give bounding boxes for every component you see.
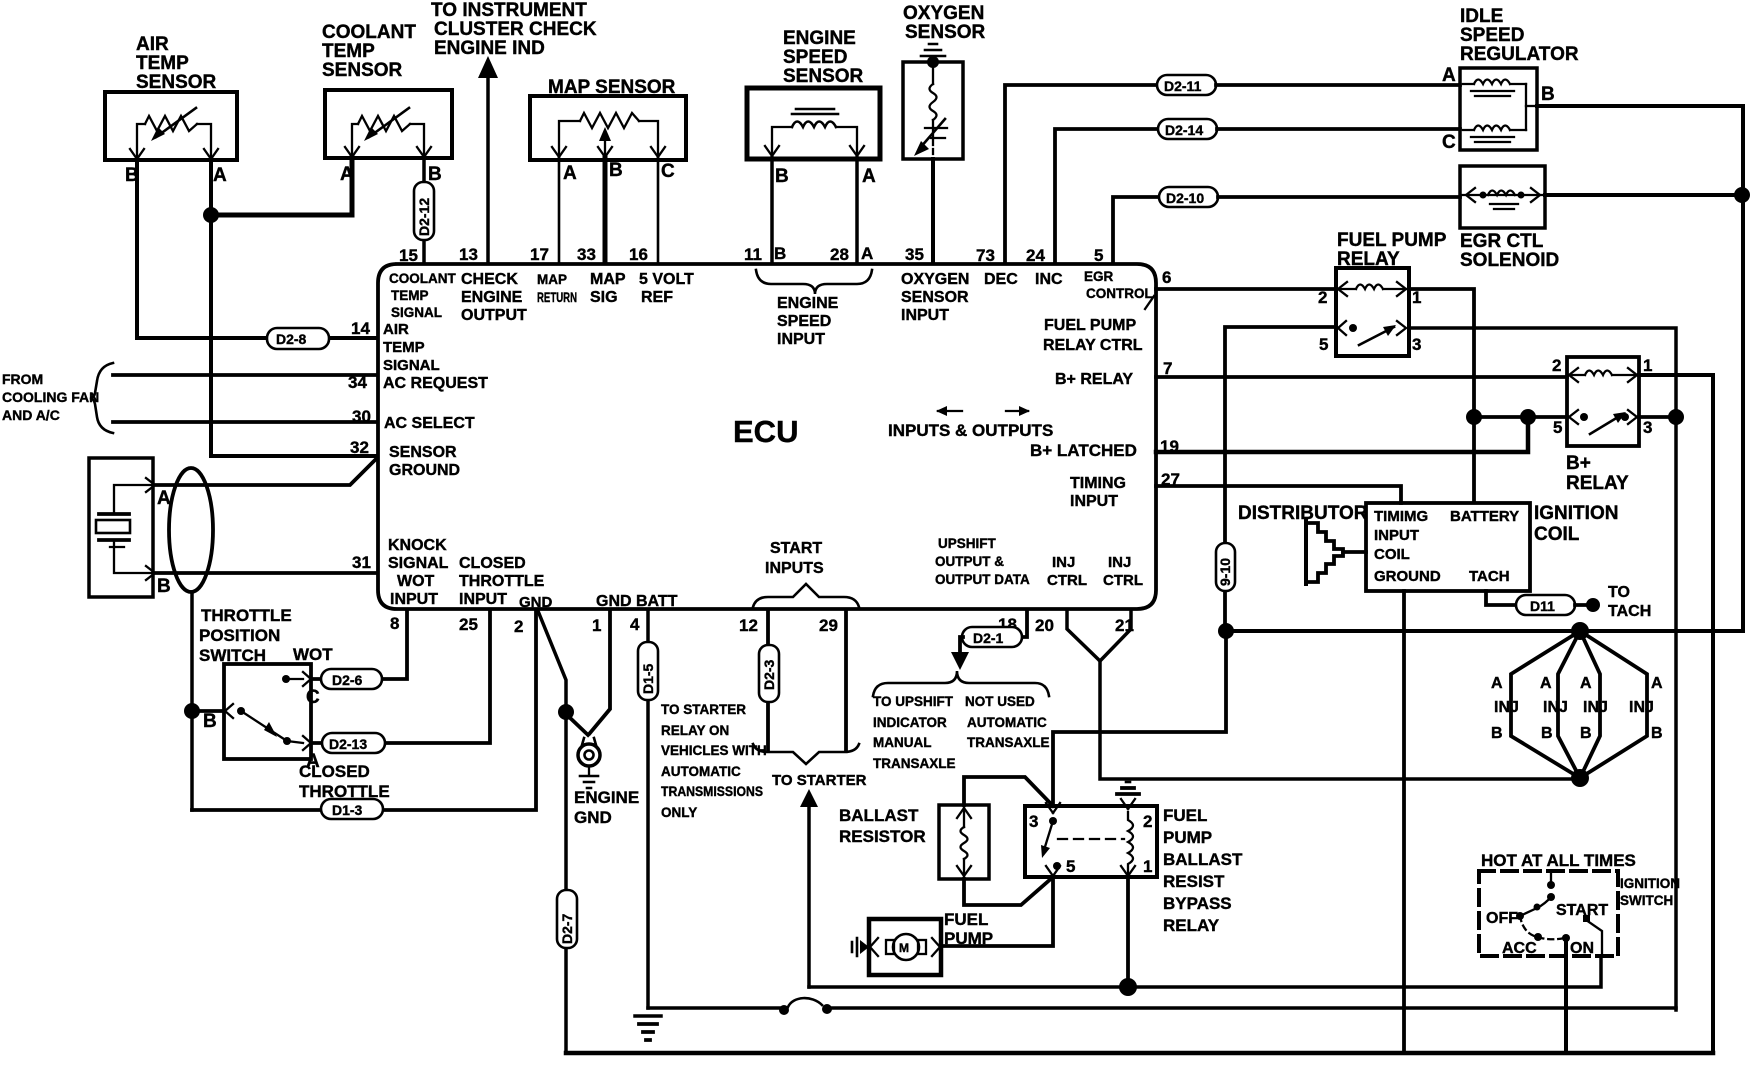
svg-text:EGR: EGR <box>1084 269 1114 284</box>
node: injector B common <box>1571 769 1589 787</box>
svg-text:31: 31 <box>352 553 371 572</box>
svg-text:TEMP: TEMP <box>391 288 429 303</box>
svg-text:CLOSED: CLOSED <box>299 762 370 781</box>
fpr switch <box>1338 321 1346 335</box>
svg-text:ENGINE: ENGINE <box>783 28 856 49</box>
wire: bypass relay pin 1 down to starter bus <box>1126 877 1130 987</box>
wire: pin 19 b+ latched <box>1156 419 1528 452</box>
svg-text:20: 20 <box>1035 616 1054 635</box>
wire: ac request to pin 34 <box>113 373 376 377</box>
svg-text:REF: REF <box>641 289 673 306</box>
connector D2-13 <box>322 733 385 753</box>
svg-text:24: 24 <box>1026 246 1045 265</box>
svg-text:FUEL PUMP: FUEL PUMP <box>1044 317 1136 334</box>
svg-text:9-10: 9-10 <box>1217 558 1233 586</box>
svg-text:REGULATOR: REGULATOR <box>1460 44 1579 65</box>
svg-text:SIGNAL: SIGNAL <box>383 357 440 374</box>
svg-text:5: 5 <box>1094 246 1103 265</box>
svg-text:14: 14 <box>351 319 370 338</box>
svg-text:INPUT: INPUT <box>1070 493 1118 510</box>
engine speed sensor <box>747 28 880 187</box>
svg-text:CLUSTER CHECK: CLUSTER CHECK <box>434 19 597 40</box>
svg-text:M: M <box>899 941 909 955</box>
svg-text:A: A <box>1442 65 1456 86</box>
svg-text:INC: INC <box>1035 271 1063 288</box>
svg-text:GROUND: GROUND <box>1374 568 1441 585</box>
svg-text:GROUND: GROUND <box>389 462 460 479</box>
svg-text:8: 8 <box>390 614 399 633</box>
svg-text:D11: D11 <box>1530 598 1555 614</box>
svg-text:EGR CTL: EGR CTL <box>1460 231 1544 252</box>
idle speed regulator <box>1442 6 1579 153</box>
svg-text:15: 15 <box>399 246 418 265</box>
wire: oxygen sensor output to pin 35 <box>931 159 935 263</box>
svg-text:TO: TO <box>1608 584 1630 601</box>
fpr coil <box>1338 285 1406 290</box>
svg-text:1: 1 <box>592 616 601 635</box>
wire: pin 7 to b+ relay coil 2 <box>1156 375 1567 379</box>
svg-text:OUTPUT DATA: OUTPUT DATA <box>935 572 1030 587</box>
wire: b+ relay pin 1 down right side <box>1639 375 1713 1053</box>
svg-text:C: C <box>661 161 675 182</box>
svg-text:HOT AT ALL TIMES: HOT AT ALL TIMES <box>1481 851 1636 870</box>
thermistor in CTS <box>358 116 410 131</box>
node: egr/b+ junction <box>1734 187 1750 203</box>
svg-text:B+ RELAY: B+ RELAY <box>1055 371 1133 388</box>
svg-text:INPUT: INPUT <box>777 331 825 348</box>
svg-text:FUEL: FUEL <box>1163 806 1207 825</box>
svg-text:SWITCH: SWITCH <box>1620 893 1673 908</box>
b+ relay coil <box>1569 371 1637 376</box>
svg-text:SENSOR: SENSOR <box>389 444 457 461</box>
svg-text:A: A <box>563 163 577 184</box>
wire: closed throttle D1-3 to pin 2 <box>192 610 536 810</box>
svg-text:INJ: INJ <box>1629 699 1654 716</box>
svg-text:D2-1: D2-1 <box>973 630 1004 646</box>
svg-text:CLOSED: CLOSED <box>459 555 526 572</box>
connector D2-7 <box>557 890 577 948</box>
svg-text:INJ: INJ <box>1543 699 1568 716</box>
svg-text:SIGNAL: SIGNAL <box>388 555 449 572</box>
b+ relay switch <box>1569 410 1578 424</box>
map sensor <box>530 77 686 184</box>
wire: knock B to pin 31 <box>155 571 376 575</box>
ATS terminal A <box>204 149 218 159</box>
tps common B <box>225 704 233 718</box>
svg-text:INPUT: INPUT <box>901 307 949 324</box>
wire: pin 29 start input <box>844 610 848 750</box>
wire: map A to pin 17 <box>558 158 561 263</box>
wire: check engine output arrow up <box>478 56 498 78</box>
svg-text:OXYGEN: OXYGEN <box>901 271 969 288</box>
wire: tps A via D2-13 to pin 25 <box>311 610 490 743</box>
wire: CTS B down through D2-12 to pin 15 <box>422 158 426 263</box>
main b+ distribution bus <box>1226 106 1743 631</box>
svg-text:INPUT: INPUT <box>390 591 438 608</box>
svg-text:COOLANT: COOLANT <box>389 271 456 286</box>
svg-text:SPEED: SPEED <box>783 47 847 68</box>
map terminal C <box>651 147 665 157</box>
brace upshift <box>873 671 1049 696</box>
pin 1 arrow <box>1121 866 1135 876</box>
svg-text:GND BATT: GND BATT <box>596 593 678 610</box>
node: fpr pin5 bus junction <box>1218 623 1234 639</box>
svg-text:A: A <box>861 244 873 263</box>
wire: pin 4 batt down to ground and fuse <box>646 610 650 1008</box>
fuel pump ground terminal <box>852 938 857 956</box>
wire: pin 73 to D2-11 <box>1005 85 1157 263</box>
svg-text:A: A <box>213 165 227 186</box>
ATS terminal B <box>130 149 144 159</box>
svg-text:1: 1 <box>1143 857 1152 876</box>
svg-text:NOT USED: NOT USED <box>965 694 1035 709</box>
brace to starter <box>753 744 859 764</box>
svg-text:ENGINE IND: ENGINE IND <box>434 38 545 59</box>
thermistor in ATS <box>145 116 197 131</box>
pin 5 <box>1053 862 1061 870</box>
svg-text:ON: ON <box>1570 940 1594 957</box>
connector D2-6 <box>321 669 382 689</box>
connector D2-10 <box>1159 187 1218 207</box>
svg-text:MANUAL: MANUAL <box>873 735 932 750</box>
svg-text:11: 11 <box>744 245 762 264</box>
svg-text:ENGINE: ENGINE <box>574 788 639 807</box>
wire: tps B to shield wire <box>192 709 224 713</box>
svg-text:CONTROL: CONTROL <box>1086 286 1153 301</box>
svg-text:SENSOR: SENSOR <box>136 72 217 93</box>
svg-text:INDICATOR: INDICATOR <box>873 715 947 730</box>
fuel pump <box>852 910 993 975</box>
svg-text:TEMP: TEMP <box>383 339 425 356</box>
svg-text:B+: B+ <box>1566 453 1591 474</box>
svg-text:ENGINE: ENGINE <box>461 289 523 306</box>
speed terminal A <box>850 146 864 156</box>
svg-text:B: B <box>1541 84 1555 105</box>
svg-text:BALLAST: BALLAST <box>839 806 919 825</box>
svg-text:3: 3 <box>1029 812 1038 831</box>
knock terminal B arrow <box>146 566 155 580</box>
svg-text:D2-3: D2-3 <box>761 659 777 690</box>
svg-text:COOLANT: COOLANT <box>322 22 416 43</box>
svg-text:RETURN: RETURN <box>537 290 577 305</box>
svg-text:TRANSMISSIONS: TRANSMISSIONS <box>661 784 763 799</box>
svg-text:IGNITION: IGNITION <box>1534 503 1618 524</box>
svg-text:UPSHIFT: UPSHIFT <box>938 536 997 551</box>
wire: shield drain down <box>190 592 194 810</box>
svg-text:B: B <box>1580 725 1592 742</box>
shield ellipse <box>169 468 213 592</box>
svg-text:INPUTS & OUTPUTS: INPUTS & OUTPUTS <box>888 421 1053 440</box>
svg-text:2: 2 <box>514 617 523 636</box>
svg-text:AUTOMATIC: AUTOMATIC <box>661 764 741 779</box>
ECU box <box>378 264 1156 609</box>
svg-text:AND A/C: AND A/C <box>2 407 60 423</box>
svg-text:25: 25 <box>459 615 478 634</box>
wire: D2-11 to isr A <box>1216 83 1460 87</box>
wire: b+ relay pin 5 feed <box>1474 415 1567 419</box>
wire: map B to pin 33 <box>603 158 608 263</box>
svg-text:C: C <box>306 687 320 708</box>
coolant temp sensor CTS <box>322 22 452 185</box>
speed terminal B <box>765 146 779 156</box>
piezo element <box>99 512 129 516</box>
wire: b+ relay pin 3 to bus <box>1639 415 1676 419</box>
wire: pin 2 gnd diagonal to engine ground bus <box>538 611 566 1053</box>
svg-text:FROM: FROM <box>2 371 43 387</box>
svg-text:DISTRIBUTOR: DISTRIBUTOR <box>1238 503 1368 524</box>
svg-text:35: 35 <box>905 245 924 264</box>
svg-text:INJ: INJ <box>1108 554 1131 571</box>
svg-text:TIMING: TIMING <box>1070 475 1126 492</box>
wire: pin 6 to fuel pump relay coil <box>1156 287 1336 291</box>
svg-text:D2-13: D2-13 <box>329 736 367 752</box>
ignition coil <box>1366 503 1530 591</box>
svg-text:TACH: TACH <box>1469 568 1510 585</box>
svg-text:WOT: WOT <box>397 573 435 590</box>
node on b+ feed <box>1466 409 1482 425</box>
wire: egr solenoid to right bus <box>1545 193 1742 197</box>
svg-text:TO STARTER: TO STARTER <box>661 702 746 717</box>
svg-text:SENSOR: SENSOR <box>901 289 969 306</box>
svg-text:D2-6: D2-6 <box>332 672 363 688</box>
node: B junction on shield wire <box>184 703 200 719</box>
svg-text:RESIST: RESIST <box>1163 872 1225 891</box>
connector D2-14 <box>1158 119 1217 139</box>
connector D2-11 <box>1157 75 1216 95</box>
connector D2-12 <box>414 182 434 240</box>
knock terminal A arrow <box>146 478 155 492</box>
svg-text:A: A <box>1651 675 1663 692</box>
isr bottom coil <box>1463 126 1526 131</box>
connector 9-10 <box>1216 543 1235 591</box>
wire: pin 27 timing input to coil <box>1156 486 1401 503</box>
dashed link <box>1058 838 1124 840</box>
connector D2-1 <box>962 627 1022 647</box>
svg-text:ACC: ACC <box>1502 940 1537 957</box>
CTS terminal B <box>417 147 431 157</box>
wire: inj ctrl pins 20/21 merge <box>1067 610 1576 779</box>
wire: coil ground down <box>1402 591 1406 1053</box>
svg-text:FUEL PUMP: FUEL PUMP <box>1337 230 1447 251</box>
svg-text:D2-11: D2-11 <box>1164 78 1202 94</box>
svg-text:SENSOR: SENSOR <box>905 22 986 43</box>
wire: pin 24 to D2-14 <box>1055 129 1158 263</box>
svg-text:B: B <box>428 164 442 185</box>
svg-text:C: C <box>1442 132 1456 153</box>
wire: speed A to pin 28 <box>855 158 859 263</box>
svg-text:D2-10: D2-10 <box>1166 190 1204 206</box>
svg-text:D2-7: D2-7 <box>559 913 575 944</box>
svg-text:RELAY CTRL: RELAY CTRL <box>1043 337 1143 354</box>
svg-text:DEC: DEC <box>984 271 1018 288</box>
injector 2 <box>1558 631 1580 778</box>
pickup coil <box>792 122 836 128</box>
svg-text:AIR: AIR <box>136 34 169 55</box>
svg-text:INPUT: INPUT <box>459 591 507 608</box>
svg-text:SPEED: SPEED <box>1460 25 1524 46</box>
svg-text:CTRL: CTRL <box>1103 572 1143 589</box>
wire: ground bus bottom <box>566 1051 1713 1056</box>
wire: pin 12 start input <box>766 610 770 750</box>
battery ground symbol <box>635 1014 661 1018</box>
wire: fpr pin 5 down via 9-10 to injector bus <box>1225 327 1336 631</box>
svg-text:A: A <box>1580 675 1592 692</box>
wire: ATS A down to sensor-ground, junction with CTS A <box>211 158 376 456</box>
svg-text:TEMP: TEMP <box>136 53 189 74</box>
wire: speed B to pin 11 <box>770 158 774 263</box>
svg-text:73: 73 <box>976 246 995 265</box>
fuel pump ballast resist bypass relay <box>1025 782 1157 877</box>
svg-text:COOLING FAN: COOLING FAN <box>2 389 99 405</box>
wire: ballast bottom to bypass relay pin 5 <box>964 877 1053 905</box>
svg-text:SENSOR: SENSOR <box>783 66 864 87</box>
isr top coil <box>1463 80 1526 85</box>
svg-text:INJ: INJ <box>1052 554 1075 571</box>
map terminal A <box>552 147 566 157</box>
svg-text:B: B <box>609 160 623 181</box>
svg-text:D2-8: D2-8 <box>276 331 307 347</box>
wire: fused battery feed bus <box>648 1006 780 1010</box>
svg-text:4: 4 <box>630 615 640 634</box>
injector 1 <box>1511 631 1580 778</box>
svg-text:COIL: COIL <box>1534 524 1580 545</box>
svg-text:SIG: SIG <box>590 289 618 306</box>
svg-text:IGNITION: IGNITION <box>1620 876 1680 891</box>
svg-text:FUEL: FUEL <box>944 910 988 929</box>
engine ground ring terminal <box>582 738 596 745</box>
svg-text:START: START <box>770 540 822 557</box>
b+ relay <box>1552 356 1652 494</box>
svg-text:3: 3 <box>1643 418 1652 437</box>
svg-text:GND: GND <box>574 808 612 827</box>
wire: ATS B down to pin 14 via D2-8 <box>137 158 376 338</box>
pickup coil core <box>792 109 838 114</box>
connector D1-5 <box>638 642 658 700</box>
svg-text:5: 5 <box>1319 335 1328 354</box>
svg-text:B: B <box>1651 725 1663 742</box>
svg-text:TO INSTRUMENT: TO INSTRUMENT <box>431 0 587 21</box>
node: sensor ground junction <box>203 207 219 223</box>
svg-text:TO STARTER: TO STARTER <box>772 772 867 789</box>
wire: pin 5 to D2-10 <box>1113 197 1159 263</box>
wire: ignition on wire <box>1564 938 1568 1053</box>
svg-text:29: 29 <box>819 616 838 635</box>
svg-text:OFF: OFF <box>1486 910 1518 927</box>
svg-text:MAP: MAP <box>590 271 626 288</box>
wire: map C to pin 16 <box>657 158 660 263</box>
svg-text:TACH: TACH <box>1608 603 1651 620</box>
svg-text:CHECK: CHECK <box>461 271 518 288</box>
connector D11 <box>1516 595 1575 615</box>
svg-text:B+ LATCHED: B+ LATCHED <box>1030 441 1137 460</box>
svg-text:2: 2 <box>1143 812 1152 831</box>
svg-text:17: 17 <box>530 245 549 264</box>
svg-text:SOLENOID: SOLENOID <box>1460 250 1559 271</box>
svg-text:D2-14: D2-14 <box>1165 122 1203 138</box>
svg-text:MAP: MAP <box>537 272 567 287</box>
svg-text:KNOCK: KNOCK <box>388 537 447 554</box>
svg-text:3: 3 <box>1412 335 1421 354</box>
svg-text:POSITION: POSITION <box>199 626 280 645</box>
wire: fpr pin 1 to ignition coil battery <box>1409 289 1474 502</box>
pin 3 arrow <box>1046 803 1060 813</box>
wire: CTS A to junction node <box>214 158 352 215</box>
wire: D2-10 to egr solenoid <box>1218 195 1460 199</box>
svg-text:B: B <box>203 711 217 732</box>
svg-text:TRANSAXLE: TRANSAXLE <box>967 735 1050 750</box>
CTS terminal A <box>345 147 359 157</box>
svg-text:5: 5 <box>1066 857 1075 876</box>
wire: bypass relay pin 5 to fuel pump <box>941 877 1053 946</box>
wire: starter bus <box>809 956 1601 987</box>
injector 3 <box>1580 631 1600 778</box>
svg-text:5: 5 <box>1553 418 1562 437</box>
connector D2-8 <box>267 328 329 349</box>
wire: coil tach to D11 <box>1486 591 1516 605</box>
svg-text:RESISTOR: RESISTOR <box>839 827 926 846</box>
svg-text:6: 6 <box>1162 268 1171 287</box>
svg-text:OUTPUT &: OUTPUT & <box>935 554 1004 569</box>
svg-text:INPUT: INPUT <box>1374 527 1419 544</box>
svg-text:BATTERY: BATTERY <box>1450 508 1519 525</box>
svg-text:PUMP: PUMP <box>944 929 993 948</box>
svg-text:BALLAST: BALLAST <box>1163 850 1243 869</box>
injectors <box>1491 622 1663 787</box>
air temp sensor ATS <box>105 34 237 186</box>
throttle position switch <box>199 606 333 772</box>
svg-text:TEMP: TEMP <box>322 41 375 62</box>
wire: tps C via D2-6 to pin 8 <box>311 610 407 679</box>
svg-text:B: B <box>157 576 171 597</box>
wire: pin 1 gnd to ring terminal <box>590 610 610 733</box>
svg-text:SIGNAL: SIGNAL <box>391 305 442 320</box>
svg-text:TO UPSHIFT: TO UPSHIFT <box>873 694 954 709</box>
svg-text:RELAY: RELAY <box>1566 473 1629 494</box>
oxygen sensor <box>903 3 986 159</box>
ballast resistor <box>839 805 989 879</box>
potentiometer in map sensor <box>580 113 639 128</box>
svg-text:SENSOR: SENSOR <box>322 60 403 81</box>
svg-text:D2-12: D2-12 <box>416 198 432 236</box>
knock sensor <box>89 458 171 597</box>
svg-text:A: A <box>1540 675 1552 692</box>
wire: knock A to pin 32 <box>155 458 377 485</box>
connector D2-3 <box>759 645 779 702</box>
svg-text:PUMP: PUMP <box>1163 828 1212 847</box>
svg-text:B: B <box>775 166 789 187</box>
svg-text:THROTTLE: THROTTLE <box>459 573 545 590</box>
wire: fpr pin 3 to b+ bus <box>1409 328 1676 417</box>
map terminal B <box>598 147 612 157</box>
svg-text:RELAY ON: RELAY ON <box>661 723 729 738</box>
brace engine speed input <box>756 270 872 294</box>
wire: D2-14 to isr C <box>1217 127 1460 131</box>
svg-text:INJ: INJ <box>1583 699 1608 716</box>
svg-text:ONLY: ONLY <box>661 805 697 820</box>
svg-text:AUTOMATIC: AUTOMATIC <box>967 715 1047 730</box>
svg-text:32: 32 <box>350 438 369 457</box>
svg-text:OXYGEN: OXYGEN <box>903 3 984 24</box>
relay arm <box>1044 821 1053 850</box>
svg-text:2: 2 <box>1552 356 1561 375</box>
fusible link <box>779 1005 789 1015</box>
svg-text:D1-3: D1-3 <box>332 802 363 818</box>
svg-text:5 VOLT: 5 VOLT <box>639 271 694 288</box>
svg-text:12: 12 <box>739 616 758 635</box>
svg-text:A: A <box>862 166 876 187</box>
svg-text:D1-5: D1-5 <box>640 663 656 694</box>
svg-text:16: 16 <box>629 245 648 264</box>
